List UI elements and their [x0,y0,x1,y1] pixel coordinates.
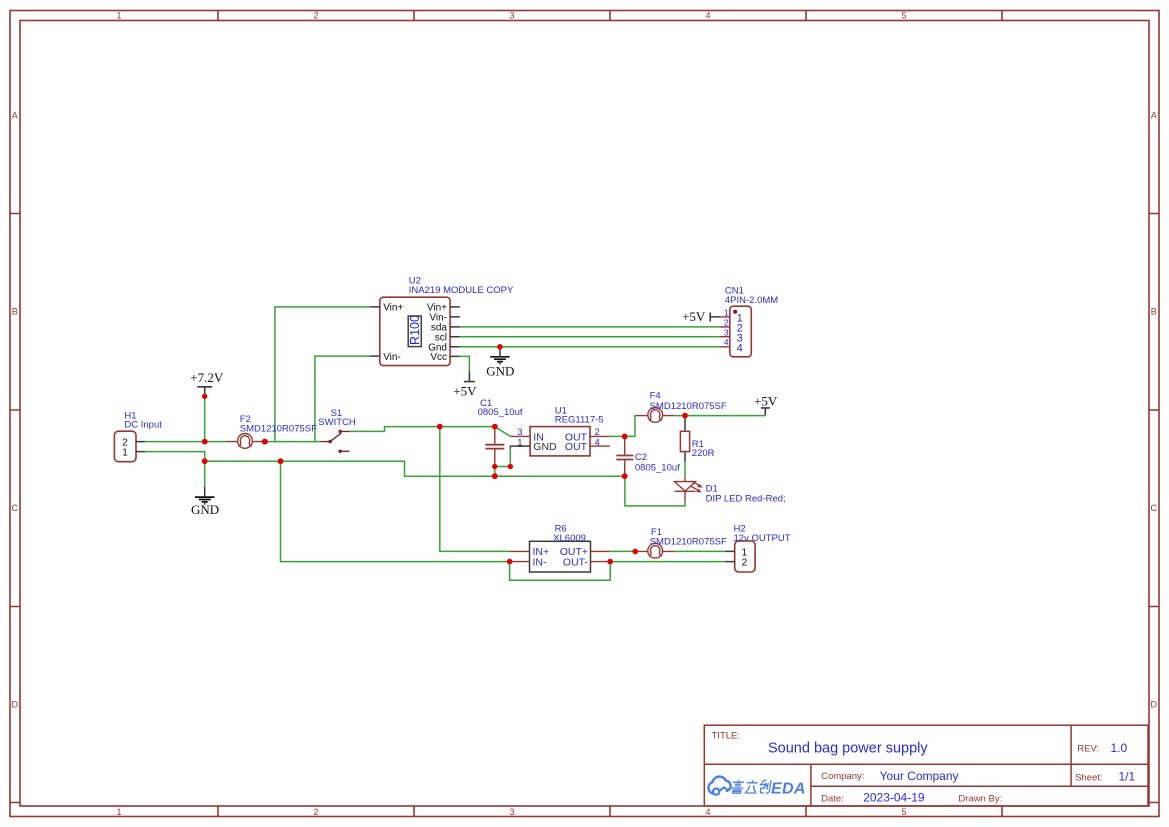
svg-text:REG1117-5: REG1117-5 [555,415,604,426]
wire F2 to S1 common riser junctions [265,441,315,443]
label S1 SWITCH [318,408,356,428]
svg-text:R100: R100 [408,315,422,345]
label C1 0805_10uf [478,398,523,418]
svg-text:0805_10uf: 0805_10uf [478,407,523,418]
fuse F1 [635,543,675,558]
wire R6.OUT- to H2.2 [610,561,725,563]
junction rail C1 top [492,424,498,430]
wire riser to U2.Vin- and S1 common elbow [315,356,370,442]
junction gnd net at H1 [202,458,208,464]
power flag +5V right [754,393,778,415]
junction switched rail to R6 [437,424,443,430]
wire gnd branch to R6.IN- [281,461,510,561]
svg-text:DC Input: DC Input [124,420,162,431]
svg-text:4: 4 [705,807,710,817]
svg-text:GND: GND [191,502,219,517]
wire R6.OUT+ to F1 [609,550,635,552]
svg-text:4: 4 [724,337,729,347]
svg-text:2: 2 [313,807,318,817]
svg-text:OUT: OUT [565,441,588,453]
junction F2 output [262,439,268,445]
junction U1 gnd drop [508,464,513,469]
wire diagonal rail to U1.IN [495,427,511,437]
junction F1 input [633,549,639,555]
CN1 pin1 marker dot [733,310,737,314]
label C2 0805_10uf [635,452,680,473]
svg-text:Sound bag power supply: Sound bag power supply [768,741,928,757]
label CN1 4PIN-2.0MM [725,285,778,306]
wire U1.GND drop [509,448,511,466]
svg-text:1: 1 [122,448,128,459]
svg-text:B: B [1151,307,1157,317]
capacitor C2 [616,436,633,476]
junction R6 IN- [507,559,513,565]
svg-text:IN-: IN- [533,557,548,569]
svg-text:Drawn By:: Drawn By: [958,793,1002,804]
IC U2 INA219 module [370,297,460,365]
label U2 INA219 MODULE COPY [409,276,514,296]
label U1 REG1117-5 [555,405,604,425]
connector H2 12v OUTPUT [725,541,755,572]
svg-text:Your Company: Your Company [880,769,959,783]
svg-text:+7.2V: +7.2V [190,370,224,385]
svg-text:EDA: EDA [771,781,806,798]
junction gnd rail below C1 [492,473,498,479]
junction +7.2V rail [202,439,208,445]
wire gnd net from H1.1 [145,452,625,487]
fuse F4 [637,408,675,423]
wire switched rail down to R6.IN+ [440,427,510,552]
junction gnd branch [278,458,284,464]
svg-text:Sheet:: Sheet: [1075,773,1102,784]
wire riser to U2.Vin+ [275,307,370,442]
label H1 DC Input [124,410,162,430]
svg-text:GND: GND [486,364,514,379]
capacitor C1 [485,427,504,467]
junction gnd rail C2 bottom [622,473,628,479]
svg-text:1: 1 [724,307,729,317]
power flag +7.2V [190,370,224,397]
label R6 XL6009 [553,523,586,544]
junction GND wire at U2 [497,344,503,350]
svg-text:SMD1210R075SF: SMD1210R075SF [240,423,317,434]
wire net SCL from U2.scl to CN1.3 [460,336,720,338]
label R1 220R [692,439,715,459]
svg-text:Vin+: Vin+ [383,303,403,314]
svg-text:Company:: Company: [821,771,864,782]
LED D1 [675,478,703,502]
svg-text:Vin-: Vin- [383,352,401,363]
svg-text:3: 3 [509,807,514,817]
wire U1.OUT to C2 and F4 riser [610,416,637,437]
wire net GND from U2.Gnd to CN1.4 [460,346,720,348]
junction U1 out C2 top [622,434,628,440]
junction dots [202,344,688,564]
power flag +5V below U2.Vcc [453,371,477,398]
svg-text:3: 3 [724,327,729,337]
connector CN1 [720,306,752,357]
label D1 DIP LED Red-Red; [706,483,786,504]
svg-text:4: 4 [595,437,600,448]
wire R6.OUT- loop to R6.IN- [510,562,611,581]
ground symbol GND on U2.Gnd net [486,347,514,379]
svg-text:3: 3 [509,11,514,21]
svg-text:OUT-: OUT- [563,557,589,569]
wire net SDA from U2.sda to CN1.2 [460,326,720,328]
svg-text:TITLE:: TITLE: [712,730,741,741]
title block [704,725,1148,806]
junction R6 OUT- [607,559,613,565]
label F1 SMD1210R075SF [650,527,727,548]
svg-text:+5V: +5V [453,384,477,399]
svg-text:REV:: REV: [1077,744,1099,755]
wire F1 to H2.1 [675,550,725,552]
svg-text:1: 1 [517,437,522,448]
junction +5V R1 top [682,413,688,419]
svg-text:SMD1210R075SF: SMD1210R075SF [650,536,727,547]
switch S1 [321,430,350,454]
wire C1 bottom to gnd rail [495,467,511,477]
power flag +5V at CN1.1 [682,309,720,324]
svg-text:12v OUTPUT: 12v OUTPUT [734,533,791,544]
svg-text:1.0: 1.0 [1111,741,1128,755]
svg-text:4: 4 [737,343,743,355]
svg-text:0805_10uf: 0805_10uf [635,462,680,473]
svg-text:SMD1210R075SF: SMD1210R075SF [650,401,727,412]
svg-text:+5V: +5V [754,393,778,408]
wire R1 lower segment [684,461,686,477]
svg-text:F4: F4 [650,390,661,401]
svg-text:1: 1 [742,547,748,558]
svg-text:1: 1 [116,11,121,21]
svg-text:5: 5 [901,807,906,817]
svg-text:A: A [1151,111,1157,121]
svg-text:2023-04-19: 2023-04-19 [863,791,925,805]
svg-text:INA219 MODULE COPY: INA219 MODULE COPY [409,285,514,296]
svg-text:C: C [12,503,19,513]
svg-text:4PIN-2.0MM: 4PIN-2.0MM [725,295,778,306]
svg-text:5: 5 [901,11,906,21]
svg-text:B: B [12,307,18,317]
svg-text:2: 2 [313,11,318,21]
wire D1 cathode return to gnd rail [625,476,685,506]
wire net +5V from U2.Vcc down to power flag [460,356,470,371]
resistor R1 [680,416,689,462]
svg-text:1: 1 [116,807,121,817]
junction +7.2V flag to wire [202,394,207,399]
label F4 SMD1210R075SF [650,390,727,411]
wire H1.2 to fuse F2 [145,441,226,443]
module R6 XL6009 [510,541,611,572]
svg-text:Vcc: Vcc [430,352,447,363]
svg-text:A: A [12,111,18,121]
IC U1 REG1117-5 [510,427,609,456]
CN1 pin numbers inside [737,312,743,354]
svg-text:2: 2 [724,318,729,328]
svg-text:2: 2 [122,437,128,448]
label F2 SMD1210R075SF [240,414,317,435]
wire net +7.2V vertical drop [204,396,206,441]
label H2 12v OUTPUT [734,523,791,544]
svg-text:220R: 220R [692,448,715,459]
connector H1 DC Input [114,431,144,462]
svg-text:SWITCH: SWITCH [318,417,356,428]
fuse F2 [226,434,265,449]
svg-text:D: D [1151,700,1158,710]
CN1 pin numbers outside [724,307,729,347]
svg-text:4: 4 [705,11,710,21]
svg-text:Date:: Date: [821,793,844,804]
svg-text:+5V: +5V [682,309,706,324]
EDA logo [708,777,805,798]
svg-text:D: D [12,700,19,710]
svg-text:2: 2 [742,558,748,569]
svg-text:DIP LED Red-Red;: DIP LED Red-Red; [706,494,786,505]
svg-text:XL6009: XL6009 [553,533,586,544]
svg-text:C: C [1151,503,1158,513]
svg-text:GND: GND [533,441,557,453]
svg-text:1/1: 1/1 [1119,770,1136,784]
resistor R100 sub-symbol inside U2 [408,315,422,347]
wire F4 to +5V flag [675,415,766,417]
wire S1 throw1 to switched rail [350,427,495,432]
junction C1 bottom [492,464,497,469]
ground symbol GND below H1 [191,486,219,516]
